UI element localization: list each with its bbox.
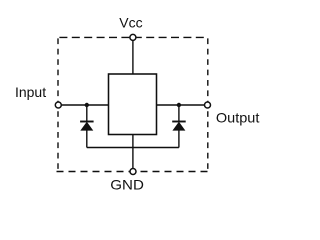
Input terminal [55,102,61,108]
Output terminal [205,102,211,108]
wire Vcc to IC top [132,39,134,74]
dashed package outline [57,37,208,171]
svg-text:GND: GND [110,177,144,193]
wire IC bottom to GND terminal [132,135,134,171]
wire IC right to Output [157,104,207,106]
wire Input to IC left [60,104,109,106]
GND terminal [130,169,136,175]
left clamp diode [80,105,94,148]
Vcc terminal [130,34,136,40]
svg-text:Output: Output [216,110,260,126]
right clamp diode [172,105,186,148]
IC block [109,74,157,135]
node input junction [85,103,89,107]
wire GND rail [87,147,179,149]
node output junction [177,103,181,107]
svg-text:Vcc: Vcc [119,15,142,31]
svg-text:Input: Input [15,84,46,100]
